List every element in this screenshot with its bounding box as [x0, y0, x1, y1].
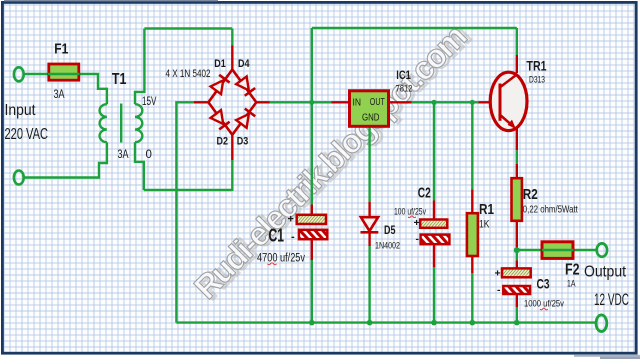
diode D4: [236, 76, 255, 95]
wire C2 to ground rail: [433, 267, 435, 323]
svg-text:D1: D1: [214, 58, 226, 70]
svg-text:R2: R2: [523, 186, 538, 203]
wire R1 to ground rail: [471, 273, 473, 323]
wire junction down to C1: [311, 102, 313, 204]
regulator IC1 box: [350, 91, 389, 127]
TR1 collector lead red: [516, 55, 518, 73]
svg-text:R1: R1: [479, 201, 494, 218]
svg-text:D5: D5: [384, 223, 396, 237]
svg-text:T1: T1: [112, 71, 127, 88]
input terminal bottom: [14, 171, 24, 185]
svg-text:D313: D313: [529, 75, 545, 85]
svg-text:+: +: [414, 217, 420, 229]
wire output node to F2: [517, 249, 542, 251]
svg-text:7812: 7812: [396, 84, 413, 94]
C2 top lead red: [433, 201, 435, 221]
input terminal top: [14, 67, 24, 81]
svg-text:1000 uf/25v: 1000 uf/25v: [524, 298, 564, 309]
svg-text:1A: 1A: [567, 279, 576, 290]
svg-text:OUT: OUT: [370, 97, 385, 108]
svg-text:0,22 ohm/5Watt: 0,22 ohm/5Watt: [523, 205, 578, 216]
transistor TR1: [490, 72, 527, 130]
wire input top to F1: [24, 73, 48, 75]
svg-text:C1: C1: [269, 226, 285, 246]
svg-text:4700 uf/25v: 4700 uf/25v: [257, 253, 305, 265]
wire bridge right to IC1: [270, 101, 332, 103]
wire rail2 down to TR1 collector (green): [516, 28, 518, 55]
svg-text:TR1: TR1: [527, 59, 547, 74]
wire input bottom to primary bottom: [24, 142, 107, 177]
wire F1 to transformer primary top: [80, 74, 107, 104]
bridge bottom lead red: [231, 134, 233, 161]
diode D5: [361, 217, 379, 232]
C3 top lead red: [516, 261, 518, 269]
svg-text:15V: 15V: [142, 96, 157, 108]
node junction C2 tap: [431, 100, 436, 105]
svg-text:D4: D4: [238, 58, 250, 70]
rail1 wire 15V top: [144, 27, 232, 29]
wire D5 to ground rail: [368, 246, 370, 323]
svg-text:C3: C3: [537, 276, 550, 292]
TR1 emitter lead red: [516, 128, 518, 150]
capacitor C3: [502, 268, 531, 294]
svg-text:D2: D2: [217, 136, 229, 148]
svg-text:Input: Input: [5, 102, 36, 119]
svg-text:GND: GND: [362, 112, 380, 123]
IC1 gnd stub: [368, 126, 370, 202]
node gnd C1: [309, 320, 315, 326]
bridge top lead red: [231, 45, 233, 70]
ground rail bottom: [176, 321, 596, 323]
svg-text:1K: 1K: [479, 219, 490, 231]
squiggle C1 uf: [268, 263, 277, 265]
svg-text:-: -: [291, 231, 295, 243]
D5 top lead red: [368, 202, 370, 218]
capacitor C1: [297, 215, 328, 239]
wire F2 to output terminal: [574, 249, 597, 251]
wire junction up to rail2: [311, 28, 313, 102]
wire C3 to ground rail: [516, 307, 518, 323]
node junction bridge out: [309, 100, 314, 105]
capacitor C2: [420, 220, 449, 245]
D5 bottom lead red: [368, 233, 370, 247]
diode D3: [236, 109, 255, 128]
svg-text:C2: C2: [418, 185, 431, 202]
svg-text:3A: 3A: [54, 87, 65, 101]
R2 top lead red: [516, 164, 518, 179]
wire R1 junction down: [471, 102, 473, 189]
resistor R1: [467, 213, 478, 256]
diode D1: [211, 75, 230, 94]
wire secondary bottom to 0 tap: [135, 142, 144, 190]
R2 bottom lead red: [516, 221, 518, 248]
node output junction: [514, 247, 520, 253]
svg-text:-: -: [416, 233, 420, 245]
svg-text:+: +: [288, 214, 294, 226]
svg-text:220 VAC: 220 VAC: [5, 126, 49, 143]
svg-text:IC1: IC1: [396, 68, 411, 82]
svg-text:0: 0: [146, 149, 152, 161]
svg-text:D3: D3: [237, 136, 249, 148]
svg-text:IN: IN: [353, 98, 362, 109]
squiggle C2 uf: [408, 216, 416, 218]
svg-text:100 uf/25v: 100 uf/25v: [394, 206, 426, 216]
output terminal top: [597, 243, 607, 256]
svg-text:F2: F2: [565, 262, 580, 279]
wire rail1 down to bridge top (green part): [231, 29, 233, 46]
svg-text:3A: 3A: [118, 149, 129, 161]
bridge right lead red: [256, 101, 270, 103]
R1 bottom lead red: [471, 256, 473, 274]
bridge left lead red: [194, 101, 209, 103]
R1 top lead red: [471, 189, 473, 213]
C3 bottom lead red: [516, 294, 518, 307]
wire secondary top to rail1: [135, 29, 144, 105]
svg-text:Output: Output: [584, 264, 627, 281]
watermark: [187, 16, 477, 307]
wire 0 tap to bridge bottom: [144, 189, 233, 191]
C1 bottom lead red: [311, 239, 313, 260]
resistor R2: [512, 178, 522, 221]
fuse F1: [48, 64, 80, 80]
svg-text:+: +: [495, 267, 501, 279]
C1 top lead red: [311, 205, 313, 216]
wire bridge left down to ground rail: [176, 102, 194, 322]
diode D2: [211, 110, 230, 129]
svg-text:-: -: [497, 284, 501, 296]
wire emitter to R2: [516, 150, 518, 164]
wire IC1 out to TR1 base: [412, 101, 479, 103]
squiggle C3 uf: [540, 308, 548, 310]
fuse F2: [542, 242, 574, 259]
output terminal bottom: [596, 315, 607, 332]
wire R2 to output node: [516, 248, 518, 251]
svg-text:1N4002: 1N4002: [375, 241, 400, 252]
IC1 output lead red: [388, 101, 412, 103]
IC1 input lead red: [332, 101, 351, 103]
rail2 top wire: [312, 27, 517, 29]
node junction R1 tap: [470, 100, 475, 105]
wire C2 junction down: [433, 102, 435, 200]
node gnd C3: [514, 320, 520, 326]
node gnd C2: [431, 320, 437, 326]
node gnd D5: [367, 320, 373, 326]
svg-text:4 X 1N 5402: 4 X 1N 5402: [166, 68, 211, 80]
bridge bottom lead green: [231, 160, 233, 191]
node gnd R1: [470, 320, 476, 326]
C2 bottom lead red: [433, 244, 435, 267]
svg-text:F1: F1: [54, 41, 68, 58]
TR1 base lead red: [479, 101, 501, 103]
wire output node down to C3: [516, 250, 518, 260]
bridge rectifier arms: [208, 70, 256, 135]
svg-text:12 VDC: 12 VDC: [594, 291, 629, 309]
wire C1 to ground rail: [311, 260, 313, 323]
transformer T1: [100, 104, 107, 142]
